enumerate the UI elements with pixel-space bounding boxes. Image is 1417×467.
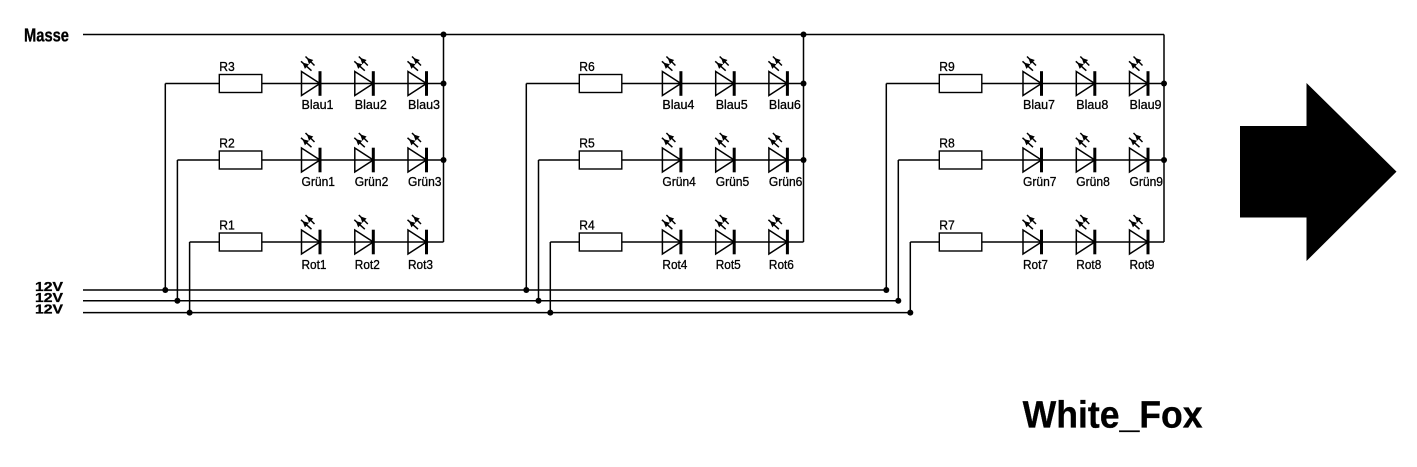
svg-text:Rot9: Rot9 <box>1130 257 1155 272</box>
svg-text:Grün8: Grün8 <box>1076 174 1110 189</box>
svg-text:Rot3: Rot3 <box>408 257 433 272</box>
resistor R1 <box>219 233 261 251</box>
wire row R9 to LEDs (group 3) <box>886 83 1164 85</box>
junction dot group 3 Blau row <box>1161 81 1167 87</box>
svg-text:White_Fox: White_Fox <box>1023 395 1203 437</box>
svg-text:R9: R9 <box>939 59 955 74</box>
LED Grün5 <box>715 133 736 172</box>
wire 12V feed for R8 <box>897 160 899 301</box>
svg-text:R4: R4 <box>579 218 595 233</box>
LED Blau7 <box>1023 57 1044 96</box>
svg-text:R6: R6 <box>579 59 595 74</box>
svg-text:R2: R2 <box>219 136 235 151</box>
junction dot feed R4 on rail 3 <box>547 310 553 316</box>
LED Blau9 <box>1129 57 1150 96</box>
LED Rot9 <box>1129 215 1150 254</box>
wire 12V rail 2 <box>83 300 898 302</box>
junction dot group 1 Grün row <box>441 157 447 163</box>
junction dot feed R9 on rail 1 <box>883 287 889 293</box>
wire row R6 to LEDs (group 2) <box>526 83 803 85</box>
LED Grün9 <box>1129 133 1150 172</box>
svg-text:Grün9: Grün9 <box>1130 174 1164 189</box>
LED Rot2 <box>354 215 375 254</box>
LED Grün3 <box>408 133 429 172</box>
svg-text:Grün1: Grün1 <box>302 174 336 189</box>
svg-text:Grün4: Grün4 <box>662 174 696 189</box>
LED Rot4 <box>662 215 683 254</box>
svg-text:Rot5: Rot5 <box>716 257 741 272</box>
svg-text:R3: R3 <box>219 59 235 74</box>
junction dot group 1 on Masse bus <box>441 32 447 38</box>
wire group 2 cathode return to Masse <box>803 35 805 243</box>
svg-text:Grün5: Grün5 <box>716 174 750 189</box>
svg-text:Masse: Masse <box>24 25 69 45</box>
svg-text:Rot7: Rot7 <box>1023 257 1048 272</box>
svg-text:Rot6: Rot6 <box>769 257 794 272</box>
junction dot feed R2 on rail 2 <box>174 298 180 304</box>
resistor R8 <box>939 151 982 169</box>
svg-text:Blau4: Blau4 <box>662 97 694 112</box>
junction dot group 2 Grün row <box>801 157 807 163</box>
wire group 3 cathode return to Masse <box>1163 35 1165 243</box>
resistor R7 <box>939 233 982 251</box>
wire row R1 to LEDs (group 1) <box>190 241 444 243</box>
svg-text:Rot1: Rot1 <box>302 257 327 272</box>
wire row R4 to LEDs (group 2) <box>550 241 803 243</box>
junction dot feed R1 on rail 3 <box>187 310 193 316</box>
junction dot feed R6 on rail 1 <box>523 287 529 293</box>
svg-text:Blau8: Blau8 <box>1076 97 1108 112</box>
LED Rot1 <box>301 215 322 254</box>
LED Blau1 <box>301 57 322 96</box>
svg-text:Blau9: Blau9 <box>1130 97 1162 112</box>
wire 12V feed for R2 <box>176 160 178 301</box>
resistor R5 <box>579 151 622 169</box>
LED Grün8 <box>1076 133 1097 172</box>
resistor R3 <box>219 75 261 93</box>
LED Rot6 <box>768 215 789 254</box>
LED Grün4 <box>662 133 683 172</box>
svg-text:Rot8: Rot8 <box>1076 257 1101 272</box>
junction dot group 2 Blau row <box>801 81 807 87</box>
wire 12V feed for R5 <box>538 160 540 301</box>
resistor R4 <box>579 233 622 251</box>
LED Rot3 <box>408 215 429 254</box>
wire row R5 to LEDs (group 2) <box>539 159 804 161</box>
svg-text:Rot4: Rot4 <box>662 257 687 272</box>
big arrow symbol pointing right <box>1240 83 1397 261</box>
wire 12V feed for R7 <box>909 242 911 313</box>
wire row R3 to LEDs (group 1) <box>165 83 443 85</box>
wire 12V feed for R3 <box>164 84 166 291</box>
svg-text:R1: R1 <box>219 218 235 233</box>
LED Blau3 <box>408 57 429 96</box>
LED Blau2 <box>354 57 375 96</box>
svg-text:Blau5: Blau5 <box>716 97 748 112</box>
wire Masse bus <box>83 34 1164 36</box>
svg-text:Grün7: Grün7 <box>1023 174 1057 189</box>
wire row R2 to LEDs (group 1) <box>177 159 443 161</box>
LED Blau6 <box>768 57 789 96</box>
wire row R8 to LEDs (group 3) <box>898 159 1164 161</box>
junction dot feed R7 on rail 3 <box>907 310 913 316</box>
svg-text:Grün3: Grün3 <box>408 174 442 189</box>
resistor R9 <box>939 75 982 93</box>
resistor R2 <box>219 151 261 169</box>
junction dot feed R8 on rail 2 <box>895 298 901 304</box>
LED Blau5 <box>715 57 736 96</box>
svg-text:Blau7: Blau7 <box>1023 97 1055 112</box>
svg-text:12V: 12V <box>35 302 63 317</box>
wire row R7 to LEDs (group 3) <box>910 241 1164 243</box>
wire 12V rail 1 <box>83 289 886 291</box>
LED Blau4 <box>662 57 683 96</box>
svg-text:Grün6: Grün6 <box>769 174 803 189</box>
svg-text:Grün2: Grün2 <box>355 174 389 189</box>
wire 12V feed for R4 <box>549 242 551 313</box>
wire 12V feed for R6 <box>525 84 527 291</box>
wire group 1 cathode return to Masse <box>443 35 445 243</box>
LED Rot5 <box>715 215 736 254</box>
junction dot group 3 Grün row <box>1161 157 1167 163</box>
svg-text:Blau1: Blau1 <box>302 97 334 112</box>
junction dot group 1 Blau row <box>441 81 447 87</box>
svg-text:Rot2: Rot2 <box>355 257 380 272</box>
svg-text:R5: R5 <box>579 136 595 151</box>
resistor R6 <box>579 75 622 93</box>
svg-text:R8: R8 <box>939 136 955 151</box>
LED Grün2 <box>354 133 375 172</box>
LED Rot7 <box>1023 215 1044 254</box>
LED Grün1 <box>301 133 322 172</box>
svg-text:Blau6: Blau6 <box>769 97 801 112</box>
junction dot feed R3 on rail 1 <box>162 287 168 293</box>
LED Blau8 <box>1076 57 1097 96</box>
wire 12V feed for R9 <box>885 84 887 291</box>
LED Rot8 <box>1076 215 1097 254</box>
LED Grün6 <box>768 133 789 172</box>
wire 12V feed for R1 <box>189 242 191 313</box>
wire 12V rail 3 <box>83 312 910 314</box>
junction dot feed R5 on rail 2 <box>536 298 542 304</box>
LED Grün7 <box>1023 133 1044 172</box>
svg-text:Blau2: Blau2 <box>355 97 387 112</box>
junction dot group 2 on Masse bus <box>801 32 807 38</box>
svg-text:Blau3: Blau3 <box>408 97 440 112</box>
svg-text:R7: R7 <box>939 218 955 233</box>
